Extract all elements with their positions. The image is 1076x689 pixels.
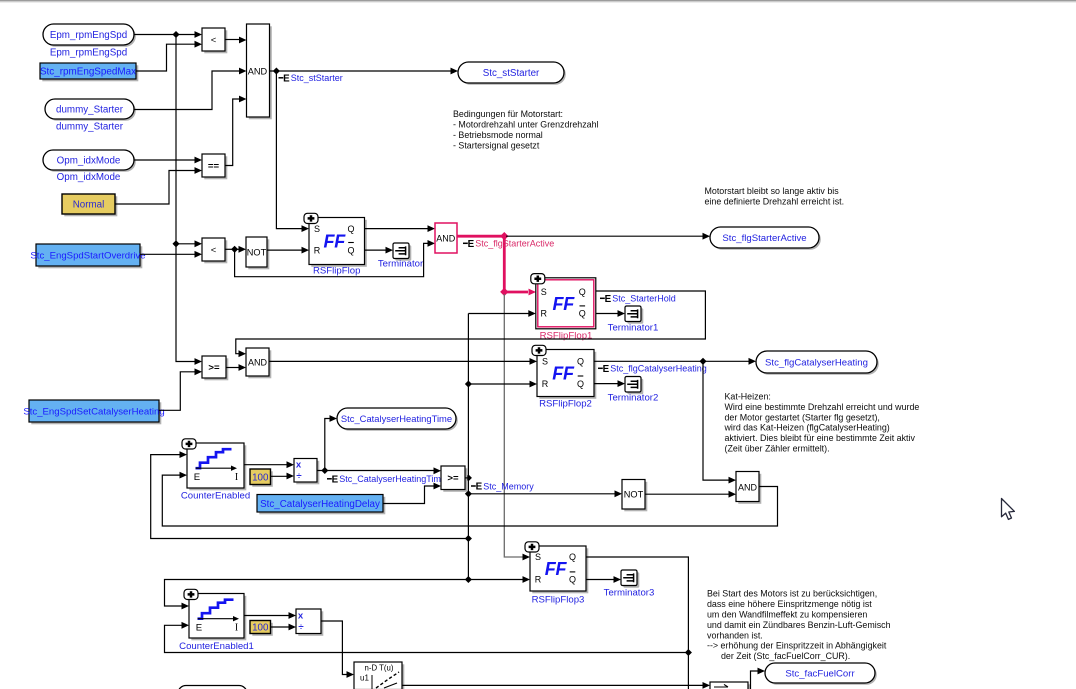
terminator Terminator1 xyxy=(625,306,643,324)
svg-text:RSFlipFlop3: RSFlipFlop3 xyxy=(532,595,585,606)
svg-text:Bei Start des Motors ist zu be: Bei Start des Motors ist zu berücksichti… xyxy=(707,589,891,651)
junction Stc_Memory at RSFlipFlop3 R xyxy=(465,576,472,583)
annotation Bedingungen xyxy=(453,109,599,151)
svg-text:S: S xyxy=(541,287,547,297)
wire loop to CounterEnabled1 E xyxy=(165,622,689,653)
svg-text:100: 100 xyxy=(252,623,269,634)
wire Stc_Memory to RSFlipFlop1 R xyxy=(468,310,535,317)
svg-text:Stc_flgStarterActive: Stc_flgStarterActive xyxy=(722,233,806,244)
wire divide2 to lookup xyxy=(321,621,354,678)
goto tag Stc_EngSpdSetCatalyserHeating xyxy=(23,400,164,424)
label RSFlipFlop3 xyxy=(532,595,585,606)
wire Stc_flgStarterActive down to RSFlipFlop3 S xyxy=(504,294,530,560)
divide block xyxy=(294,459,319,485)
wire CounterEnabled1 to divide2 xyxy=(244,612,296,619)
svg-text:S: S xyxy=(542,357,548,367)
wire Stc_stStarter down to RSFlipFlop S xyxy=(276,71,309,232)
wire Stc_Memory to CounterEnabled1 xyxy=(165,580,469,610)
wire RSFlipFlop Qbar to Terminator xyxy=(365,247,394,254)
svg-text:FF: FF xyxy=(323,232,346,252)
svg-text:RSFlipFlop2: RSFlipFlop2 xyxy=(539,399,592,410)
wire Epm_rpmEngSpd to relational < xyxy=(134,31,202,38)
svg-text:Q: Q xyxy=(347,245,354,255)
inport dummy_Starter xyxy=(45,99,136,121)
wire AND1 to outport Stc_stStarter xyxy=(270,68,459,75)
wire < to AND1 xyxy=(225,37,247,44)
inport Opm_idxMode xyxy=(43,150,136,172)
svg-text:Q: Q xyxy=(569,552,576,562)
relational operator < lower xyxy=(202,238,227,263)
svg-text:Stc_flgCatalyserHeating: Stc_flgCatalyserHeating xyxy=(765,357,868,368)
label Opm_idxMode xyxy=(57,172,121,183)
svg-text:E: E xyxy=(605,294,612,305)
wire NOT2 to AND3 xyxy=(645,491,736,498)
label RSFlipFlop xyxy=(313,266,360,277)
logical operator AND2 selected xyxy=(435,223,457,253)
relational operator < upper xyxy=(202,28,227,53)
junction Stc_Memory at RSFlipFlop2 R xyxy=(465,380,472,387)
wire Stc_Memory loop to CounterEnabled xyxy=(151,451,469,538)
label RSFlipFlop2 xyxy=(539,399,592,410)
svg-text:AND: AND xyxy=(738,482,758,492)
relational operator >= left xyxy=(202,356,228,380)
svg-text:Stc_stStarter: Stc_stStarter xyxy=(291,73,343,83)
svg-text:S: S xyxy=(535,552,541,562)
label RSFlipFlop1 xyxy=(540,331,593,342)
goto tag Stc_CatalyserHeatingDelay xyxy=(257,495,385,515)
svg-text:R: R xyxy=(535,575,542,585)
svg-text:Stc_Memory: Stc_Memory xyxy=(483,481,534,491)
wire 100 to divide2 xyxy=(271,624,297,631)
label Terminator2 xyxy=(608,393,659,404)
svg-text:Terminator: Terminator xyxy=(378,259,424,270)
svg-text:dummy_Starter: dummy_Starter xyxy=(56,122,124,133)
svg-text:FF: FF xyxy=(545,559,568,579)
counter CounterEnabled1 xyxy=(184,589,246,640)
svg-text:FF: FF xyxy=(553,294,576,314)
svg-text:CounterEnabled: CounterEnabled xyxy=(181,491,250,502)
svg-text:AND: AND xyxy=(248,357,268,367)
svg-text:RSFlipFlop1: RSFlipFlop1 xyxy=(540,331,593,342)
signal label Stc_flgCatalyserHeating xyxy=(598,364,707,375)
svg-text:Q: Q xyxy=(569,575,576,585)
wire lookup out to block xyxy=(402,682,710,689)
wire >= out to Stc_Memory node xyxy=(465,477,468,479)
junction on Epm_rpmEngSpd wire xyxy=(172,31,179,38)
label Terminator3 xyxy=(604,588,655,599)
junction divide out xyxy=(321,467,328,474)
svg-text:I: I xyxy=(235,472,238,483)
svg-text:>=: >= xyxy=(208,363,220,374)
svg-text:100: 100 xyxy=(252,472,269,483)
wire AND to RSFlipFlop2 S xyxy=(269,358,537,365)
wire Stc_CatalyserHeatingDelay to >= xyxy=(383,483,441,504)
svg-text:÷: ÷ xyxy=(296,471,302,482)
terminator Terminator3 xyxy=(621,570,639,588)
RS flip-flop RSFlipFlop2 xyxy=(532,345,596,399)
wire to outport Stc_flgStarterActive xyxy=(506,233,710,240)
wire Stc_rpmEngSpedMax to < xyxy=(136,41,202,71)
svg-text:S: S xyxy=(314,224,320,234)
logical operator AND KatHeizen xyxy=(246,348,271,378)
svg-text:Stc_StarterHold: Stc_StarterHold xyxy=(612,294,676,304)
svg-text:E: E xyxy=(332,474,339,485)
wire < to NOT xyxy=(225,246,246,253)
outport Stc_CatalyserHeatingTime xyxy=(337,408,458,431)
svg-text:Opm_idxMode: Opm_idxMode xyxy=(57,172,121,183)
logical operator AND3 xyxy=(736,472,761,504)
svg-text:Normal: Normal xyxy=(73,200,105,211)
svg-text:E: E xyxy=(603,364,610,375)
svg-text:<: < xyxy=(211,245,217,256)
svg-text:Terminator3: Terminator3 xyxy=(604,588,655,599)
junction Stc_Memory at NOT branch xyxy=(465,490,472,497)
svg-text:Stc_CatalyserHeatingTime: Stc_CatalyserHeatingTime xyxy=(341,413,452,424)
block partial bottom xyxy=(710,682,750,689)
svg-text:Q: Q xyxy=(579,309,586,319)
logical operator NOT2 xyxy=(622,480,647,512)
junction Stc_flgCatalyserHeating xyxy=(699,358,706,365)
terminator Terminator xyxy=(393,243,411,261)
wire AND3 loop to CounterEnabled E xyxy=(162,472,777,526)
signal label Stc_StarterHold xyxy=(600,294,676,305)
wire Stc_Memory to RSFlipFlop3 R xyxy=(468,576,530,583)
svg-text:Q: Q xyxy=(577,357,584,367)
outport Stc_facFuelCorr xyxy=(765,663,877,685)
wire Stc_Memory vertical xyxy=(467,314,469,580)
svg-text:R: R xyxy=(542,379,549,389)
wire Epm_rpmEngSpd down to >= xyxy=(176,35,202,365)
relational operator >= right xyxy=(441,466,467,492)
wire Stc_EngSpdSetCatalyserHeating to >= xyxy=(159,368,202,410)
svg-text:der Zeit (Stc_facFuelCorr_CUR): der Zeit (Stc_facFuelCorr_CUR). xyxy=(721,651,850,661)
wire block to Stc_facFuelCorr xyxy=(751,668,766,689)
wire branch to AND2 xyxy=(235,240,435,277)
wire Normal to == xyxy=(115,167,202,204)
svg-text:R: R xyxy=(541,309,548,319)
wire RSFlipFlop Q to AND2 xyxy=(365,225,436,232)
svg-text:Terminator1: Terminator1 xyxy=(608,323,659,334)
signal label Stc_stStarter xyxy=(279,73,343,84)
wire RSFlipFlop2 Qbar to Terminator2 xyxy=(594,380,625,387)
annotation Motorstart xyxy=(705,186,845,207)
svg-text:Motorstart bleibt so lange akt: Motorstart bleibt so lange aktiv biseine… xyxy=(705,186,845,207)
wire Opm_idxMode to == xyxy=(134,157,202,164)
svg-text:AND: AND xyxy=(248,66,268,76)
wire NOT to RSFlipFlop R xyxy=(267,247,309,254)
signal label Stc_Memory xyxy=(471,481,534,492)
svg-text:E: E xyxy=(468,239,475,250)
pill partial bottom left xyxy=(178,686,247,689)
svg-text:÷: ÷ xyxy=(298,622,304,633)
wire RSFlipFlop2 Q to outport xyxy=(594,358,756,365)
wire divide out xyxy=(317,467,441,474)
junction Stc_stStarter xyxy=(273,67,280,74)
label Epm_rpmEngSpd xyxy=(50,48,127,59)
lookup table n-D xyxy=(354,662,404,689)
svg-text:x: x xyxy=(296,460,302,471)
constant 100 second xyxy=(250,621,273,636)
svg-text:Stc_CatalyserHeatingTime: Stc_CatalyserHeatingTime xyxy=(339,474,446,484)
label dummy_Starter xyxy=(56,122,124,133)
wire AND2 output highlighted xyxy=(457,236,536,295)
annotation Bei Start xyxy=(707,589,891,661)
svg-text:Stc_rpmEngSpedMax: Stc_rpmEngSpedMax xyxy=(40,67,136,78)
divide block 2 xyxy=(296,609,323,636)
svg-text:Epm_rpmEngSpd: Epm_rpmEngSpd xyxy=(50,30,127,41)
RS flip-flop RSFlipFlop1 selected xyxy=(531,274,596,329)
svg-text:<: < xyxy=(211,35,217,46)
constant 100 xyxy=(250,469,273,487)
pink junction 2 xyxy=(500,288,508,296)
logical operator NOT xyxy=(246,237,269,269)
wire Stc_flgCatalyserHeating down to AND3 xyxy=(703,361,736,483)
svg-text:Terminator2: Terminator2 xyxy=(608,393,659,404)
annotation KatHeizen xyxy=(724,392,920,454)
svg-text:Stc_flgStarterActive: Stc_flgStarterActive xyxy=(475,239,554,249)
signal label Stc_flgStarterActive xyxy=(463,239,554,250)
svg-text:R: R xyxy=(314,245,321,255)
wire RSFlipFlop1 Qbar to Terminator1 xyxy=(596,310,625,317)
constant Normal xyxy=(62,194,117,216)
svg-text:Stc_CatalyserHeatingDelay: Stc_CatalyserHeatingDelay xyxy=(260,499,380,510)
junction Stc_Memory source xyxy=(465,474,472,481)
goto tag Stc_rpmEngSpedMax xyxy=(40,63,138,81)
svg-text:==: == xyxy=(208,161,220,172)
RS flip-flop RSFlipFlop3 xyxy=(525,542,588,594)
wire CounterEnabled to divide xyxy=(244,461,294,468)
svg-text:Stc_flgCatalyserHeating: Stc_flgCatalyserHeating xyxy=(610,364,707,374)
svg-text:Stc_EngSpdStartOverdrive: Stc_EngSpdStartOverdrive xyxy=(30,251,145,262)
inport Epm_rpmEngSpd xyxy=(43,24,136,47)
svg-text:E: E xyxy=(283,73,290,84)
svg-text:Q: Q xyxy=(577,379,584,389)
svg-text:Stc_stStarter: Stc_stStarter xyxy=(483,68,540,79)
terminator Terminator2 xyxy=(625,377,643,395)
wire RSFlipFlop1 Q loop to AND-KatHeizen xyxy=(236,291,706,357)
RS flip-flop RSFlipFlop xyxy=(304,213,367,266)
svg-text:NOT: NOT xyxy=(624,490,644,500)
wire Stc_Memory to NOT xyxy=(468,490,622,497)
pink junction 1 xyxy=(500,232,508,240)
svg-text:dummy_Starter: dummy_Starter xyxy=(56,104,124,115)
mouse cursor xyxy=(1002,499,1015,520)
svg-text:NOT: NOT xyxy=(247,247,267,257)
junction RSFlipFlop3 Q loop xyxy=(685,649,692,656)
svg-text:I: I xyxy=(235,622,238,633)
goto tag Stc_EngSpdStartOverdrive xyxy=(30,244,145,268)
relational operator == xyxy=(202,154,227,179)
label CounterEnabled xyxy=(181,491,250,502)
wire 100 to divide xyxy=(271,473,295,480)
label Terminator1 xyxy=(608,323,659,334)
svg-text:Stc_facFuelCorr: Stc_facFuelCorr xyxy=(785,668,855,679)
wire dummy_Starter to AND1 xyxy=(134,68,247,110)
svg-text:Stc_EngSpdSetCatalyserHeating: Stc_EngSpdSetCatalyserHeating xyxy=(23,407,164,418)
wire up to Stc_CatalyserHeatingTime outport xyxy=(325,415,337,470)
junction to lower < xyxy=(172,240,179,247)
svg-text:Q: Q xyxy=(347,224,354,234)
svg-text:u1: u1 xyxy=(360,674,369,683)
junction after lower < xyxy=(231,246,238,253)
outport Stc_flgCatalyserHeating xyxy=(756,351,879,375)
wire Stc_EngSpdStartOverdrive to < xyxy=(140,251,202,258)
svg-text:n-D T(u): n-D T(u) xyxy=(365,664,394,673)
logical operator AND1 xyxy=(247,24,272,119)
outport Stc_stStarter xyxy=(458,62,566,85)
junction Stc_Memory at counter loop xyxy=(465,535,472,542)
svg-text:Opm_idxMode: Opm_idxMode xyxy=(57,155,121,166)
svg-text:AND: AND xyxy=(436,233,456,243)
svg-text:E: E xyxy=(196,622,202,633)
label Terminator xyxy=(378,259,424,270)
counter CounterEnabled xyxy=(182,439,246,491)
signal label Stc_CatalyserHeatingTime xyxy=(327,474,446,485)
svg-text:FF: FF xyxy=(552,364,575,384)
wire RSFlipFlop3 Qbar to Terminator3 xyxy=(586,576,621,583)
wire RSFlipFlop3 Q down xyxy=(586,557,688,689)
label CounterEnabled1 xyxy=(179,641,254,652)
svg-text:Epm_rpmEngSpd: Epm_rpmEngSpd xyxy=(50,48,127,59)
outport Stc_flgStarterActive xyxy=(710,227,821,250)
wire == to AND1 xyxy=(225,96,247,166)
svg-text:>=: >= xyxy=(447,473,459,484)
wire branch to lower < xyxy=(176,240,202,247)
svg-text:CounterEnabled1: CounterEnabled1 xyxy=(179,641,254,652)
svg-text:RSFlipFlop: RSFlipFlop xyxy=(313,266,360,277)
wire Stc_Memory to RSFlipFlop2 R xyxy=(468,381,537,388)
wire >= to AND-KatHeizen xyxy=(226,364,246,371)
svg-text:E: E xyxy=(194,472,200,483)
svg-text:Q: Q xyxy=(579,287,586,297)
svg-text:E: E xyxy=(476,482,483,493)
svg-text:x: x xyxy=(298,611,304,622)
